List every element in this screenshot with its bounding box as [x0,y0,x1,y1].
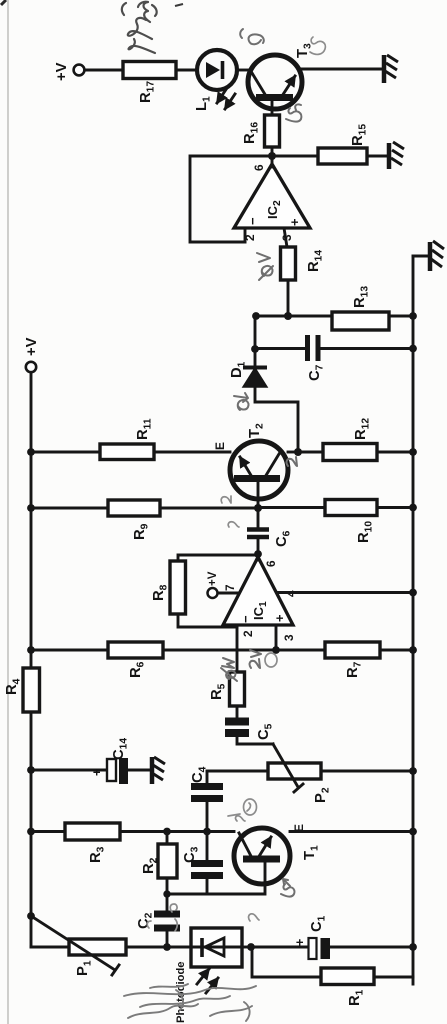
capacitor C3 [182,831,223,894]
potentiometer P2 [268,763,332,803]
capacitor C1 (electrolytic) [251,915,413,959]
op-amp IC1 [223,557,298,641]
svg-text:6: 6 [264,560,278,567]
potentiometer P2 branch wire [207,770,413,773]
junction: C2 tap on photodiode branch [163,943,171,951]
scan small dash [175,4,183,6]
handwritten curls near C2 [147,904,177,931]
handwritten j-hook mark above T3 [240,29,264,44]
junction: T2 collector node [294,448,302,456]
transistor T2 [213,423,288,499]
handwritten B arrow below T1 [281,879,294,897]
photodiode light arrows [197,969,218,993]
wire: IC1 pin 3 stub [275,625,278,650]
junction: R11 on +V rail [27,448,35,456]
wire: T2 emitter up to R11 [154,451,230,454]
handwritten mark right of T3 (loop) [310,37,325,54]
junction: T2 base node [254,504,262,512]
svg-text:+V: +V [54,62,70,81]
handwritten 2 below T2 [287,457,297,466]
junction: P2 on ground rail [409,767,417,775]
junction: R12 on ground rail [409,448,417,456]
wire: R6 R7 divider line [31,649,413,652]
capacitor C6 [247,508,293,547]
+V terminal (main rail) [24,337,40,372]
junction: C7 on ground rail [409,345,417,353]
wire: +V top rail [30,373,33,947]
junction: P1 wiper on +V rail [27,912,35,920]
handwritten marks near T1 collector (0V circled) [228,799,257,821]
capacitor C7 [255,335,413,381]
resistor R2 [141,831,177,894]
junction: R3 line on +V rail [27,828,35,836]
junction: D1 node line corner [252,312,260,320]
wire: IC2 feedback loop [190,156,272,242]
wire: T1 collector line [31,830,234,833]
wire: IC2 output stub [271,147,274,167]
potentiometer P1 [31,939,191,976]
svg-text:+V: +V [207,571,219,586]
resistor R17 [85,62,197,104]
IC1 pin 7 +V terminal [207,571,237,598]
wire: IC2 pin 2 stub [244,228,247,242]
handwritten mark near T3 base (B2) [286,104,301,121]
wire: T1 base line [167,862,265,894]
transistor T3 [248,43,314,109]
resistor R15 [274,124,388,164]
wire: bottom ground rail [412,256,415,984]
scan corner mark [1,0,6,5]
wire: D1 cathode to node line [254,316,257,366]
resistor R12 [298,418,413,461]
junction: R2 / collector line [163,828,171,836]
handwritten scribble cluster (cursive above R17) [122,2,157,53]
P2 wiper arrow [273,744,303,792]
resistor R10 [325,500,377,544]
capacitor C2 [136,894,180,947]
ground (T3 emitter) [384,55,398,83]
junction: R10 on ground rail [409,504,417,512]
op-amp IC2 [234,164,310,241]
junction: R9 on +V rail [27,504,35,512]
junction: C3 C4 / collector line [203,828,211,836]
svg-text:−: − [238,615,253,623]
svg-text:3: 3 [282,634,296,641]
junction: C7 tap [251,345,259,353]
svg-text:2: 2 [241,630,255,637]
svg-text:Photodiode: Photodiode [175,961,187,1023]
resistor R7 [325,642,380,678]
capacitor C14 (decoupling) [31,738,150,784]
resistor R3 [65,823,120,863]
junction: base line / C2 / R2 [163,890,170,897]
junction: R14 tap on R13 line [284,312,292,320]
svg-text:−: − [245,217,260,225]
resistor R4 (in top rail) [4,668,40,712]
junction: IC2 output node [268,152,276,160]
resistor R16 [242,100,280,147]
svg-text:+: + [293,939,307,946]
resistor R8 (feedback) [151,555,255,627]
wire: IC1 output stub [257,540,260,560]
resistor R13 [255,286,413,330]
handwritten strike marks near IC1 pin2 [221,658,237,681]
handwritten scribbles bottom left corner [124,984,256,1021]
diode D1 [229,361,267,387]
wire: T1 emitter to ground rail [290,830,413,833]
svg-text:+V: +V [24,337,40,356]
svg-text:6: 6 [252,164,266,171]
junction: T1 emitter on ground rail [409,828,417,836]
transistor T1 [234,824,321,884]
svg-text:7: 7 [223,584,237,591]
photodiode [191,928,242,967]
svg-text:E: E [213,442,227,450]
wire: R5 to IC1 pin 2 [236,625,239,672]
junction: divider on +V rail [27,646,35,654]
wire: IC1 pin 4 to ground rail [277,591,413,594]
handwritten mark near D1 (0 arrow) [234,393,248,410]
junction: pin3 on divider [272,646,280,654]
capacitor C5 [225,706,275,744]
handwritten 2V circled near IC1 pin3 [250,650,261,668]
handwritten 0V near R14 [257,253,273,280]
handwritten mark above T2 base [221,496,231,503]
resistor R9 [108,500,160,540]
wire: T2 collector down [288,451,298,454]
junction: C14 on +V rail [27,766,35,774]
ground (below C14) [152,757,165,784]
resistor R14 [281,228,325,316]
junction: divider on ground rail [409,646,417,654]
wire: T3 emitter down [302,68,382,71]
scan edge artifact line [7,0,9,1024]
wire: photodiode cathode to node [242,946,251,949]
junction: C1 on ground rail [409,943,417,951]
wire: collector to D1 [255,387,298,452]
LED L1 [194,50,237,111]
resistor R6 [108,642,163,678]
junction: IC1 output node [254,550,262,558]
P1 wiper arrow [31,916,119,975]
LED light arrows [217,88,235,109]
svg-text:+: + [287,218,302,226]
svg-text:+: + [272,614,287,622]
resistor R1 [252,947,413,1006]
ground (below R15) [389,142,404,169]
capacitor C4 [190,766,223,831]
junction: pin4 on ground rail [409,589,417,597]
wire: T2 base stub [257,482,260,508]
ground (bottom rail right end) [413,241,444,271]
wire: T3 collector to LED [237,69,248,72]
handwritten curl near C6 [228,522,239,527]
+V terminal (output stage) [54,62,84,81]
junction: photodiode output node [247,943,255,951]
handwritten curl right of photodiode [249,914,259,921]
wire: R9 R10 divider line (T2 base) [31,506,413,509]
resistor R5 [209,672,245,706]
svg-text:+: + [90,769,104,776]
svg-text:3: 3 [280,234,294,241]
junction: R13 on ground rail [409,312,417,320]
resistor R11 [31,418,154,459]
